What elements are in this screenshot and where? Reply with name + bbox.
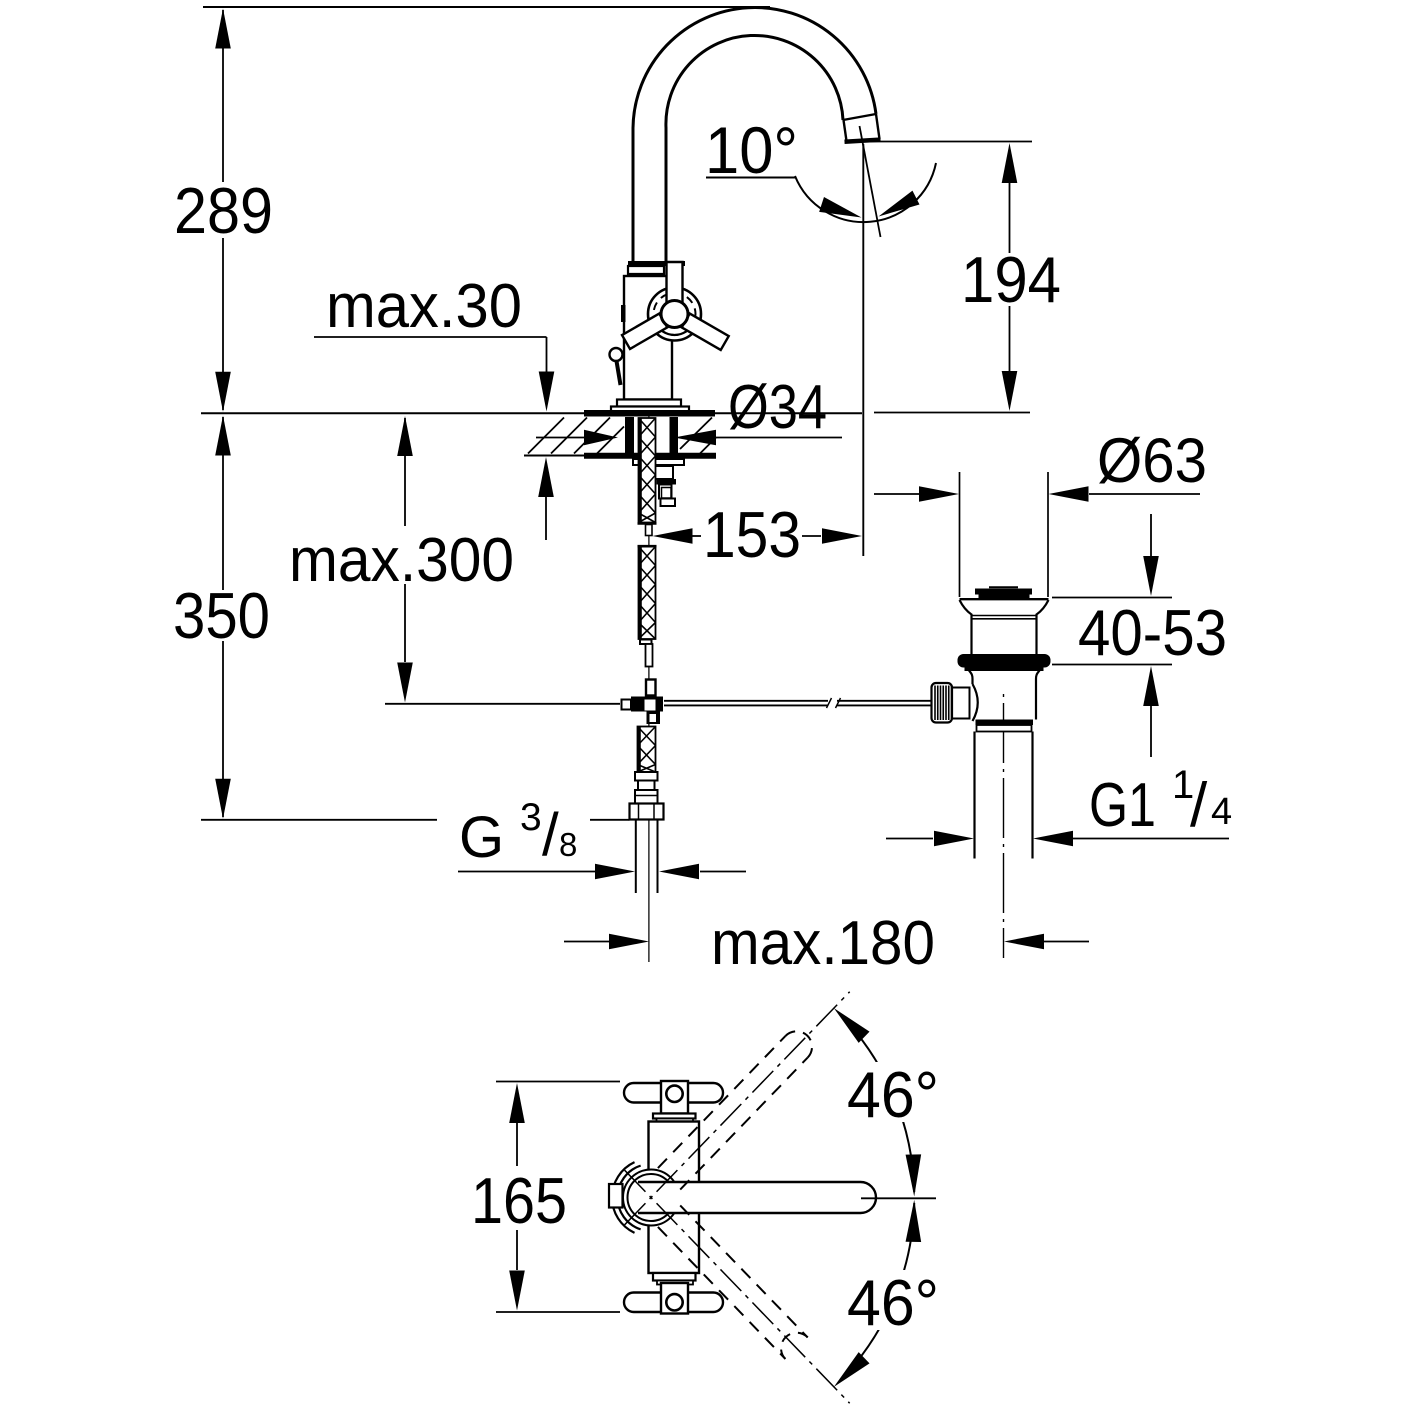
svg-text:350: 350 (173, 579, 270, 652)
label 46 lower (845, 1270, 940, 1330)
dimension 289 (222, 10, 224, 182)
G3/8 nut (630, 804, 664, 820)
label 46 upper (845, 1062, 940, 1122)
svg-text:max.300: max.300 (289, 526, 514, 595)
handle spoke lower-right (682, 314, 729, 350)
front view bottom stem (653, 1273, 696, 1281)
front view top handle hub (661, 1081, 688, 1114)
svg-text:194: 194 (961, 243, 1061, 316)
escutcheon (617, 400, 681, 407)
knob knurling (934, 686, 936, 721)
locknut washer (633, 459, 684, 465)
svg-text:289: 289 (174, 174, 273, 247)
svg-text:46°: 46° (847, 1266, 939, 1339)
front view swivel rings (612, 1162, 635, 1233)
deck bottom thick band (584, 453, 716, 459)
front view bottom handle screw (666, 1294, 682, 1310)
svg-text:40-53: 40-53 (1078, 596, 1227, 669)
svg-text:8: 8 (559, 826, 577, 863)
drain pipe coupling (977, 725, 1032, 732)
svg-text:4: 4 (1211, 791, 1232, 833)
faucet body (624, 276, 672, 400)
svg-text:G: G (459, 805, 504, 870)
dimension 153 (653, 528, 693, 544)
spout gooseneck tube (633, 8, 876, 263)
svg-text:max.180: max.180 (711, 909, 935, 978)
top reference line (203, 6, 770, 8)
front view bottom handle bar (624, 1293, 723, 1313)
svg-text:Ø34: Ø34 (728, 373, 827, 442)
10 degree arc (795, 163, 936, 222)
deck top line (201, 412, 862, 414)
front view wall tab (609, 1184, 623, 1208)
svg-text:165: 165 (471, 1164, 567, 1237)
svg-text:/: / (1190, 771, 1208, 840)
dashed spout position down 46 (680, 1205, 807, 1337)
deck hatching left (528, 418, 564, 454)
handle ring boss (648, 288, 701, 341)
pop-up waste valve body (969, 671, 973, 685)
pop-up rod (664, 700, 828, 702)
svg-text:3: 3 (520, 796, 542, 839)
spout axis line (861, 1197, 936, 1199)
handle hub (661, 301, 688, 328)
svg-text:/: / (542, 801, 559, 868)
handle spoke lower-left (622, 314, 667, 349)
front view 165 top reference (496, 1081, 620, 1083)
front view spout solid (638, 1182, 876, 1213)
check valve fitting (655, 466, 674, 479)
dimension 165 (509, 1083, 525, 1123)
faucet centerline (648, 416, 650, 962)
lower supply hose (639, 547, 656, 640)
46 degree arc upper (840, 1015, 914, 1192)
10 degree tilted line (860, 126, 881, 237)
pop-up waste flange (960, 598, 1049, 600)
valve body bulge (973, 684, 978, 721)
svg-text:max.30: max.30 (326, 272, 522, 341)
pop-up waste knob (952, 688, 970, 719)
hose stub (646, 525, 653, 536)
drain tailpipe (973, 732, 975, 859)
front view body (649, 1122, 700, 1274)
pop-up waste gasket (958, 654, 1051, 668)
dimension max.180 (564, 941, 609, 943)
svg-text:46°: 46° (847, 1058, 939, 1131)
body collar (628, 261, 685, 266)
front view 165 bottom reference (496, 1311, 620, 1313)
svg-text:153: 153 (703, 498, 801, 571)
front view top handle bar (624, 1083, 723, 1103)
dimension 40-53 (1052, 597, 1172, 599)
svg-text:G1: G1 (1089, 771, 1156, 840)
front view top stem (653, 1114, 696, 1119)
lower hose tail (638, 727, 656, 773)
svg-text:10°: 10° (705, 113, 798, 187)
pop-up rod pivot (646, 680, 656, 696)
deck hatching right (680, 418, 712, 450)
front view bottom handle hub (661, 1283, 688, 1314)
waste centerline (1003, 694, 1005, 958)
hose connector (635, 772, 658, 781)
shank walls (625, 417, 634, 457)
dashed spout position up 46 (658, 1036, 785, 1168)
stream vertical line (862, 144, 864, 556)
pop-up waste plug (989, 586, 1018, 588)
handle spoke up (667, 262, 683, 303)
spout outlet aerator (843, 114, 876, 120)
upper supply hose (639, 418, 656, 523)
dimension 194 (869, 141, 1032, 143)
front view top handle screw (666, 1086, 682, 1102)
dimension 350 (222, 417, 224, 590)
deck top thick band (584, 410, 715, 417)
deck bottom line (524, 455, 716, 457)
dimension max.300 (404, 418, 406, 526)
46 degree arc lower (840, 1203, 914, 1380)
lower reference line G3/8 level (201, 819, 437, 821)
lever (610, 348, 623, 361)
G3/8 inlet pipe (635, 820, 637, 894)
svg-text:Ø63: Ø63 (1097, 426, 1207, 496)
